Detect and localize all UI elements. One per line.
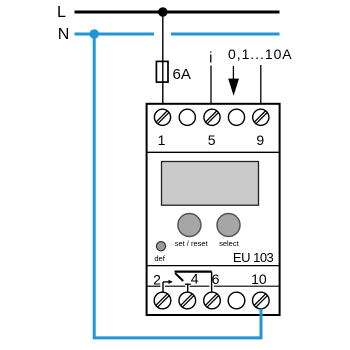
svg-text:def: def — [154, 254, 165, 263]
junction node on L — [158, 7, 168, 17]
terminal 5 — [204, 109, 220, 125]
arrow to middle terminal — [228, 66, 239, 96]
wire N (left of crossing) — [75, 33, 155, 36]
terminal (unnumbered top 2nd) — [179, 109, 195, 125]
terminal 9 — [253, 109, 269, 125]
terminal 10 — [252, 292, 269, 309]
svg-text:5: 5 — [208, 132, 216, 148]
svg-text:9: 9 — [256, 132, 264, 148]
terminal 1 — [154, 109, 170, 125]
junction node on N — [89, 29, 99, 39]
terminal 4 — [179, 292, 196, 309]
separator below top terminals — [148, 151, 279, 153]
svg-text:i: i — [209, 50, 212, 67]
wire from i to terminal 5 — [210, 66, 212, 110]
svg-text:2: 2 — [153, 271, 161, 287]
terminal block top line (segmented) — [148, 285, 279, 287]
svg-text:10: 10 — [251, 271, 267, 287]
relay EU 103 enclosure — [147, 104, 280, 315]
wire L — [75, 11, 280, 14]
svg-text:6A: 6A — [173, 66, 191, 83]
changeover relay contact symbol — [163, 272, 212, 293]
button select — [217, 214, 240, 237]
svg-text:1: 1 — [158, 132, 166, 148]
LED def — [156, 242, 165, 251]
svg-text:N: N — [58, 26, 70, 43]
terminal 6 — [204, 292, 221, 309]
svg-text:select: select — [219, 239, 240, 248]
wire to terminal 9 — [260, 65, 262, 109]
terminal (unnumbered bottom 4th) — [228, 292, 245, 309]
terminal 2 — [154, 292, 171, 309]
svg-text:EU 103: EU 103 — [233, 250, 274, 265]
wire N (right of crossing) — [171, 33, 280, 36]
svg-text:4: 4 — [191, 271, 199, 287]
wire from L junction down to terminal 1 (through fuse) — [162, 12, 164, 111]
svg-text:6: 6 — [212, 271, 220, 287]
svg-text:L: L — [57, 4, 66, 21]
svg-text:set / reset: set / reset — [175, 239, 209, 248]
button set/reset — [178, 214, 201, 237]
separator above bottom terminals — [148, 265, 279, 267]
wire inside fuse — [162, 61, 164, 82]
svg-text:0,1...10A: 0,1...10A — [228, 46, 293, 62]
neutral wire from N junction to terminal 10 — [94, 34, 261, 338]
fuse F1 — [156, 61, 168, 82]
terminal (unnumbered top 4th) — [228, 109, 244, 125]
LCD display — [162, 162, 259, 206]
